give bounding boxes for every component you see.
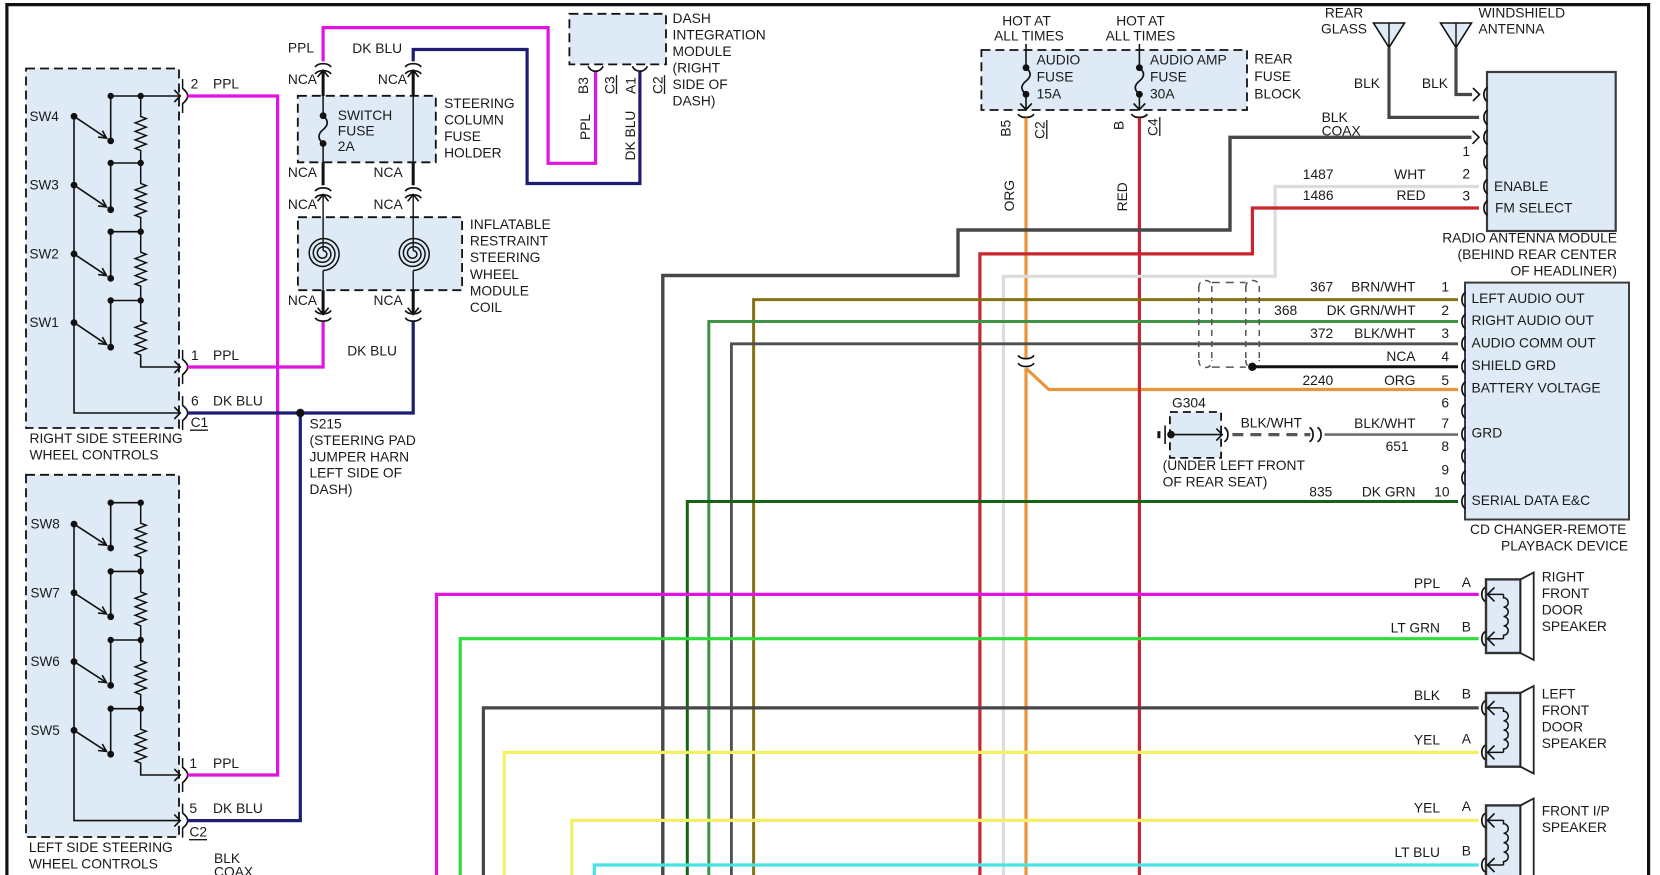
svg-text:NCA: NCA <box>374 293 404 308</box>
svg-text:10: 10 <box>1434 485 1450 500</box>
svg-text:2: 2 <box>1441 303 1449 318</box>
wire: R8 to pin 1 <box>141 768 180 775</box>
wire RED: audio amp fuse down (to amp, off page) <box>1115 118 1139 875</box>
svg-text:WINDSHIELD: WINDSHIELD <box>1479 6 1566 21</box>
svg-text:C2: C2 <box>1033 121 1048 139</box>
svg-text:BLK: BLK <box>1414 688 1441 703</box>
svg-text:INTEGRATION: INTEGRATION <box>673 28 766 43</box>
windshield antenna <box>1441 6 1566 48</box>
wire ORG: branch to CD changer battery voltage (2240) <box>1026 368 1458 389</box>
wire: fuse holder pass-through (right leg) <box>412 70 415 96</box>
pin 7 (CD changer) <box>1462 426 1502 442</box>
pin 6 (CD changer) <box>1462 404 1466 418</box>
label HOT AT ALL TIMES (audio amp fuse) <box>1106 14 1176 44</box>
svg-text:FRONT: FRONT <box>1542 586 1590 601</box>
svg-text:FRONT I/P: FRONT I/P <box>1542 803 1610 818</box>
svg-text:DK BLU: DK BLU <box>213 394 263 409</box>
wire: R4 to pin 1 <box>141 360 180 367</box>
svg-text:C3: C3 <box>603 76 618 94</box>
wire: G304 to connector (arrow) <box>1171 427 1228 441</box>
pin 9 (CD changer) <box>1462 471 1466 485</box>
svg-text:C2: C2 <box>189 825 207 840</box>
svg-text:NCA: NCA <box>378 72 408 87</box>
wire BLK: radio (off page) to left front door speaker pin B <box>483 686 1478 875</box>
connector: PPL to switch fuse (NCA) <box>288 64 331 87</box>
svg-text:RIGHT: RIGHT <box>1542 570 1585 585</box>
svg-text:ALL TIMES: ALL TIMES <box>1106 29 1176 44</box>
connector B5/C2 (audio fuse output) <box>999 114 1048 139</box>
svg-text:ORG: ORG <box>1002 180 1017 211</box>
wire PPL: right controls pin 1 to coil module lower connector <box>188 322 324 368</box>
svg-text:YEL: YEL <box>1414 801 1440 816</box>
coil (right clockspring) <box>399 195 429 291</box>
svg-text:DOOR: DOOR <box>1542 603 1583 618</box>
svg-text:(STEERING PAD: (STEERING PAD <box>310 433 416 448</box>
svg-text:SPEAKER: SPEAKER <box>1542 820 1607 835</box>
svg-text:SW1: SW1 <box>30 315 59 330</box>
svg-text:PPL: PPL <box>578 114 593 140</box>
ground G304 <box>1159 396 1306 490</box>
svg-text:C1: C1 <box>191 415 209 430</box>
rear glass antenna <box>1321 6 1405 48</box>
wire PPL: steering column fuse to dash integration module pin B3 <box>323 28 595 164</box>
wire BLK COAX: radio antenna module to radio (off page) <box>663 110 1479 875</box>
svg-text:A: A <box>1462 799 1472 814</box>
pin 3 FM SELECT (radio antenna module) <box>1484 201 1573 216</box>
svg-text:SW5: SW5 <box>31 723 60 738</box>
svg-text:ALL TIMES: ALL TIMES <box>994 29 1064 44</box>
svg-text:FUSE: FUSE <box>1037 70 1074 85</box>
connector: DK BLU to fuse holder (NCA) <box>378 64 421 87</box>
wire PPL: radio (off page) to right front door speaker pin A <box>437 575 1479 875</box>
svg-text:6: 6 <box>191 394 199 409</box>
svg-text:BLOCK: BLOCK <box>1254 87 1302 102</box>
svg-text:2: 2 <box>191 77 199 92</box>
switch SW1 <box>30 301 115 351</box>
svg-text:2: 2 <box>1462 167 1470 182</box>
svg-text:4: 4 <box>1441 349 1449 364</box>
svg-text:2A: 2A <box>338 139 356 154</box>
wire: shield drain to CD changer pin 4 (SHIELD GRD) <box>1248 349 1458 371</box>
svg-text:MODULE: MODULE <box>470 283 529 298</box>
wire BLK/WHT 651: to CD changer pin 7 GRD <box>1325 416 1459 454</box>
svg-text:RIGHT AUDIO OUT: RIGHT AUDIO OUT <box>1472 313 1595 328</box>
svg-text:YEL: YEL <box>1414 733 1440 748</box>
svg-text:C2: C2 <box>651 76 666 94</box>
svg-text:A1: A1 <box>624 77 639 94</box>
svg-text:DK BLU: DK BLU <box>352 41 402 56</box>
pin 5 / connector C2 (left controls) <box>174 801 263 840</box>
wire YEL: radio (off page) to left front door speaker pin A <box>504 731 1478 875</box>
dash integration module <box>569 11 765 109</box>
wire BLK: rear glass antenna to radio antenna module <box>1354 48 1479 118</box>
audio amp fuse 30A <box>1134 44 1227 110</box>
connector B/C4 (audio amp fuse output) <box>1112 114 1161 136</box>
svg-text:DK GRN: DK GRN <box>1362 485 1416 500</box>
steering column fuse holder <box>298 96 515 163</box>
switch SW7 <box>31 571 115 620</box>
resistor R6 (left controls) <box>135 571 146 640</box>
svg-text:WHT: WHT <box>1394 167 1426 182</box>
pin 10 (CD changer) <box>1462 493 1590 509</box>
audio fuse 15A <box>1020 44 1080 110</box>
svg-text:NCA: NCA <box>374 165 404 180</box>
svg-text:SERIAL DATA E&C: SERIAL DATA E&C <box>1472 493 1591 508</box>
connector: coil module bottom right (NCA) <box>374 290 422 321</box>
svg-text:SHIELD GRD: SHIELD GRD <box>1472 358 1556 373</box>
svg-text:GLASS: GLASS <box>1321 21 1367 36</box>
svg-text:30A: 30A <box>1150 87 1175 102</box>
svg-text:DK BLU: DK BLU <box>213 801 263 816</box>
svg-text:DASH): DASH) <box>673 94 716 109</box>
svg-text:3: 3 <box>1462 189 1470 204</box>
pin B3 / connector C3 (dash integration module) <box>576 66 618 140</box>
svg-text:FUSE: FUSE <box>444 129 481 144</box>
label 2240 ORG 5 (battery voltage wire) <box>1302 373 1449 388</box>
resistor R7 (left controls) <box>135 640 146 709</box>
inflatable restraint steering wheel module coil <box>298 217 551 315</box>
svg-text:BLK/WHT: BLK/WHT <box>1354 326 1416 341</box>
left side steering wheel controls <box>26 475 179 872</box>
svg-text:DASH: DASH <box>673 11 711 26</box>
label BLK COAX (bottom) <box>214 851 253 875</box>
svg-text:1: 1 <box>191 348 199 363</box>
pin: rear glass antenna input <box>1484 110 1488 124</box>
coil (left clockspring) <box>309 195 339 291</box>
svg-text:C4: C4 <box>1146 118 1161 136</box>
svg-text:FRONT: FRONT <box>1542 703 1590 718</box>
svg-text:372: 372 <box>1310 326 1333 341</box>
svg-text:DASH): DASH) <box>310 482 353 497</box>
svg-text:FUSE: FUSE <box>1150 70 1187 85</box>
svg-text:1486: 1486 <box>1303 188 1334 203</box>
svg-text:A: A <box>1462 575 1472 590</box>
svg-text:B: B <box>1462 686 1471 701</box>
pin 6 / connector C1 (right controls) <box>174 394 263 431</box>
wire DK GRN/WHT 368: CD changer pin 2 to radio (off page) <box>709 303 1458 875</box>
pin 5 (CD changer) <box>1462 381 1601 397</box>
svg-text:HOT AT: HOT AT <box>1116 14 1165 29</box>
svg-text:OF HEADLINER): OF HEADLINER) <box>1510 264 1617 279</box>
svg-text:LT BLU: LT BLU <box>1395 845 1441 860</box>
resistor R5 (left controls) <box>135 503 146 572</box>
switch SW3 <box>30 163 115 213</box>
svg-text:MODULE: MODULE <box>673 44 732 59</box>
front I/P speaker <box>1482 799 1610 875</box>
svg-text:(UNDER LEFT FRONT: (UNDER LEFT FRONT <box>1163 458 1306 473</box>
svg-text:AUDIO COMM OUT: AUDIO COMM OUT <box>1472 335 1597 350</box>
svg-text:SWITCH: SWITCH <box>338 108 392 123</box>
svg-text:DK BLU: DK BLU <box>347 343 397 358</box>
svg-text:SW8: SW8 <box>31 517 60 532</box>
wire LT BLU: radio (off page) to front I/P speaker pin B <box>594 844 1478 875</box>
svg-text:DK BLU: DK BLU <box>623 111 638 161</box>
pin 2 ENABLE (radio antenna module) <box>1462 179 1548 204</box>
svg-text:AUDIO AMP: AUDIO AMP <box>1150 53 1227 68</box>
svg-text:7: 7 <box>1441 416 1449 431</box>
svg-text:A: A <box>1462 731 1472 746</box>
svg-text:BLK: BLK <box>1354 76 1381 91</box>
wire BLK/WHT (dashed) from G304 <box>1232 416 1310 435</box>
svg-text:835: 835 <box>1309 485 1332 500</box>
radio antenna module <box>1442 72 1617 279</box>
svg-text:SW7: SW7 <box>31 585 60 600</box>
svg-text:SIDE OF: SIDE OF <box>673 77 728 92</box>
wire DK BLU: fuse holder to dash integration module pin A1 <box>413 50 640 184</box>
svg-text:S215: S215 <box>310 417 343 432</box>
pin 1 (left controls) <box>174 756 239 792</box>
switch fuse 2A <box>319 70 392 162</box>
svg-text:1487: 1487 <box>1303 167 1334 182</box>
svg-text:STEERING: STEERING <box>470 250 541 265</box>
pin A1 / connector C2 (dash integration module) <box>623 66 666 160</box>
svg-text:BATTERY VOLTAGE: BATTERY VOLTAGE <box>1472 381 1601 396</box>
svg-text:PLAYBACK DEVICE: PLAYBACK DEVICE <box>1501 539 1628 554</box>
wire YEL: radio (off page) to front I/P speaker pin A <box>572 799 1479 875</box>
svg-text:RESTRAINT: RESTRAINT <box>470 234 549 249</box>
svg-text:B5: B5 <box>999 119 1014 136</box>
svg-text:BLK/WHT: BLK/WHT <box>1241 416 1303 431</box>
svg-text:LEFT SIDE OF: LEFT SIDE OF <box>310 466 403 481</box>
switch SW6 <box>31 640 115 689</box>
svg-text:NCA: NCA <box>288 197 318 212</box>
wire ORG: audio fuse down (to radio, off page) <box>1002 118 1026 875</box>
svg-text:1: 1 <box>1441 280 1449 295</box>
svg-text:WHEEL CONTROLS: WHEEL CONTROLS <box>29 857 158 872</box>
svg-text:JUMPER HARN: JUMPER HARN <box>310 449 410 464</box>
svg-text:COLUMN: COLUMN <box>444 113 504 128</box>
pin 1 (right controls) <box>174 348 239 384</box>
svg-text:367: 367 <box>1310 280 1333 295</box>
svg-text:B: B <box>1112 121 1127 130</box>
switch SW5 <box>31 709 115 758</box>
svg-text:RED: RED <box>1115 182 1130 211</box>
svg-text:B: B <box>1462 844 1471 859</box>
right front door speaker <box>1482 570 1607 660</box>
svg-text:OF REAR SEAT): OF REAR SEAT) <box>1163 475 1268 490</box>
wire DK BLU: splice S215 down to left controls pin 5 <box>188 413 301 821</box>
CD changer-remote playback device <box>1465 283 1629 554</box>
resistor R2 (right controls) <box>135 163 146 232</box>
svg-text:PPL: PPL <box>213 77 239 92</box>
svg-text:HOT AT: HOT AT <box>1002 14 1051 29</box>
svg-text:G304: G304 <box>1172 396 1206 411</box>
svg-text:1: 1 <box>189 756 197 771</box>
wire RED 1486: radio antenna module pin 3 to radio (off page) <box>980 188 1479 875</box>
svg-text:LEFT: LEFT <box>1542 686 1576 701</box>
svg-text:DOOR: DOOR <box>1542 720 1583 735</box>
svg-text:COAX: COAX <box>1322 124 1361 139</box>
svg-text:B: B <box>1462 620 1471 635</box>
svg-text:FUSE: FUSE <box>338 124 375 139</box>
pin 4 (CD changer) <box>1462 358 1556 374</box>
svg-text:SW6: SW6 <box>31 654 60 669</box>
left front door speaker <box>1482 686 1607 774</box>
pin 2 (right controls) <box>174 77 239 114</box>
svg-text:FUSE: FUSE <box>1254 69 1291 84</box>
svg-text:LEFT SIDE STEERING: LEFT SIDE STEERING <box>29 840 173 855</box>
svg-text:CD CHANGER-REMOTE: CD CHANGER-REMOTE <box>1470 522 1626 537</box>
svg-text:DK GRN/WHT: DK GRN/WHT <box>1327 303 1416 318</box>
svg-text:FM SELECT: FM SELECT <box>1495 201 1573 216</box>
svg-text:INFLATABLE: INFLATABLE <box>470 217 551 232</box>
rear fuse block <box>981 50 1301 110</box>
switch SW8 <box>31 503 115 552</box>
svg-text:RIGHT SIDE STEERING: RIGHT SIDE STEERING <box>30 431 183 446</box>
wire PPL: right controls pin 2 down to left controls pin 1 <box>188 96 278 775</box>
svg-text:ORG: ORG <box>1384 373 1415 388</box>
right side steering wheel controls <box>26 69 183 463</box>
svg-text:SW4: SW4 <box>30 109 60 124</box>
pin 8 (CD changer) <box>1462 449 1466 463</box>
svg-text:5: 5 <box>1441 373 1449 388</box>
wire DK BLU: right controls pin 6 to splice S215 to coil module <box>188 322 414 414</box>
svg-text:SW2: SW2 <box>30 246 59 261</box>
pin 2 (CD changer) <box>1462 313 1595 329</box>
svg-text:B3: B3 <box>576 77 591 94</box>
svg-text:GRD: GRD <box>1472 426 1503 441</box>
resistor R1 (right controls) <box>135 96 146 163</box>
connector: double arc on ground wire <box>1310 427 1322 441</box>
svg-text:PPL: PPL <box>288 41 314 56</box>
svg-text:5: 5 <box>189 801 197 816</box>
svg-text:PPL: PPL <box>213 756 239 771</box>
connector: fuse holder to coil (left NCA pair) <box>288 162 331 212</box>
svg-text:HOLDER: HOLDER <box>444 146 502 161</box>
svg-text:8: 8 <box>1441 439 1449 454</box>
resistor R3 (right controls) <box>135 232 146 301</box>
wire BRN/WHT 367: CD changer pin 1 to radio (off page) <box>754 280 1458 875</box>
svg-text:WHEEL CONTROLS: WHEEL CONTROLS <box>30 448 159 463</box>
svg-text:LT GRN: LT GRN <box>1391 621 1440 636</box>
svg-text:15A: 15A <box>1037 87 1062 102</box>
connector: fuse holder to coil (right NCA pair) <box>374 165 422 212</box>
svg-text:BLK/WHT: BLK/WHT <box>1354 416 1416 431</box>
svg-text:SW3: SW3 <box>30 178 59 193</box>
switch SW2 <box>30 232 115 282</box>
node: resistor ladder taps (left controls) <box>108 500 144 712</box>
wire BLK/WHT 372: CD changer pin 3 to radio (off page) <box>731 326 1458 875</box>
wire WHT 1487: radio antenna module pin 2 to radio (off page) <box>1004 167 1480 875</box>
svg-text:1: 1 <box>1462 144 1470 159</box>
resistor R8 (left controls) <box>135 709 146 768</box>
pin: windshield antenna input <box>1484 87 1488 101</box>
svg-text:LEFT AUDIO OUT: LEFT AUDIO OUT <box>1472 291 1586 306</box>
svg-text:NCA: NCA <box>374 197 404 212</box>
pin 1 (radio antenna module) <box>1462 155 1487 182</box>
svg-text:NCA: NCA <box>288 293 318 308</box>
svg-text:368: 368 <box>1274 303 1297 318</box>
svg-text:6: 6 <box>1441 395 1449 410</box>
svg-text:PPL: PPL <box>213 348 239 363</box>
svg-text:2240: 2240 <box>1302 373 1333 388</box>
shielded cable symbol (twisted pair shield) <box>1199 281 1260 368</box>
wire: common bus to pin 6 <box>74 116 180 413</box>
svg-text:651: 651 <box>1386 439 1409 454</box>
connector: coil module bottom left (NCA) <box>288 290 331 321</box>
pin 3 (CD changer) <box>1462 335 1596 351</box>
svg-text:ANTENNA: ANTENNA <box>1479 21 1546 36</box>
svg-text:NCA: NCA <box>288 165 318 180</box>
svg-text:ENABLE: ENABLE <box>1494 179 1548 194</box>
svg-text:COAX: COAX <box>214 865 253 875</box>
svg-text:COIL: COIL <box>470 300 503 315</box>
splice S215 <box>296 409 416 497</box>
svg-text:NCA: NCA <box>288 72 318 87</box>
svg-text:NCA: NCA <box>1386 349 1416 364</box>
wire: common bus to pin 5 <box>74 524 180 821</box>
svg-text:STEERING: STEERING <box>444 96 515 111</box>
connector: inline on ORG wire <box>1018 355 1034 366</box>
wire DK GRN 835: CD changer pin 10 to radio (off page) <box>687 485 1458 875</box>
svg-text:REAR: REAR <box>1254 52 1292 67</box>
wire LT GRN: radio (off page) to right front door speaker pin B <box>460 620 1478 875</box>
svg-text:(RIGHT: (RIGHT <box>673 61 721 76</box>
svg-text:PPL: PPL <box>1414 576 1440 591</box>
svg-text:SPEAKER: SPEAKER <box>1542 619 1607 634</box>
resistor R4 (right controls) <box>135 301 146 361</box>
svg-text:(BEHIND REAR CENTER: (BEHIND REAR CENTER <box>1458 247 1617 262</box>
label HOT AT ALL TIMES (audio fuse) <box>994 14 1064 44</box>
switch SW4 <box>30 96 115 144</box>
svg-text:RED: RED <box>1396 188 1425 203</box>
svg-text:BRN/WHT: BRN/WHT <box>1351 280 1416 295</box>
wire BLK: windshield antenna to radio antenna module <box>1422 48 1480 102</box>
svg-text:RADIO ANTENNA MODULE: RADIO ANTENNA MODULE <box>1442 231 1617 246</box>
svg-text:3: 3 <box>1441 326 1449 341</box>
svg-text:REAR: REAR <box>1325 6 1363 21</box>
svg-text:WHEEL: WHEEL <box>470 267 519 282</box>
svg-text:SPEAKER: SPEAKER <box>1542 736 1607 751</box>
pin 1 (CD changer) <box>1462 291 1585 307</box>
svg-text:9: 9 <box>1441 463 1449 478</box>
pin: coax output to radio <box>1462 130 1487 159</box>
svg-text:BLK: BLK <box>1422 76 1449 91</box>
node: resistor ladder taps (right controls) <box>108 93 181 304</box>
svg-text:AUDIO: AUDIO <box>1037 53 1081 68</box>
